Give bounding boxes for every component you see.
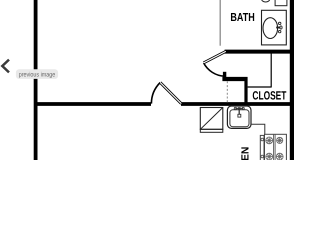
burner bottom-right (276, 153, 283, 160)
svg-text:previous image: previous image (19, 71, 56, 78)
wall stub above closet corner (door jamb) (223, 72, 226, 81)
vanity counter rect (262, 10, 287, 45)
stove divider double line (273, 134, 275, 160)
door D2 leaf (204, 51, 226, 63)
vanity faucet (276, 22, 282, 33)
vanity basin oval (263, 18, 278, 39)
closet shelf line horizontal (248, 86, 272, 88)
toilet tank rect (partial, top edge) (275, 0, 287, 6)
wall bottom-right horizontal (181, 102, 294, 106)
stove outline (265, 134, 287, 161)
kitchen sink outer (227, 106, 251, 128)
wall bath-left thin gray (219, 0, 221, 46)
dishwasher square (200, 108, 223, 130)
dishwasher apron strip (200, 129, 223, 132)
burner top-right (277, 137, 283, 143)
wall closet top horizontal (222, 77, 247, 81)
wall left vertical (34, 0, 38, 160)
oven handle knobs (261, 138, 264, 141)
wall bottom-left horizontal (34, 102, 151, 106)
door D2 arc (bath door) (204, 63, 225, 76)
wall bath bottom (225, 50, 293, 54)
closet partition line vertical (270, 54, 272, 88)
counter edge line (251, 124, 265, 134)
kitchen sink faucet (234, 107, 244, 117)
wall closet left vertical (244, 77, 247, 104)
dishwasher diagonal (200, 108, 223, 130)
burner top-left (266, 137, 273, 144)
burner bottom-left (266, 153, 273, 160)
dashed opening line (226, 81, 228, 102)
toilet bowl (partial, top edge) (261, 0, 269, 2)
tooltip previous image (16, 69, 58, 79)
svg-text:CLOSET: CLOSET (252, 89, 286, 103)
svg-text:BATH: BATH (230, 11, 254, 24)
svg-text:KITCHEN: KITCHEN (241, 147, 252, 160)
previous-image chevron (2, 60, 9, 73)
oven handle rect (260, 135, 264, 161)
door D1 leaf (160, 83, 181, 104)
door D1 arc (bottom door) (151, 83, 160, 104)
kitchen sink inner (230, 110, 249, 127)
wall right vertical (290, 0, 294, 160)
